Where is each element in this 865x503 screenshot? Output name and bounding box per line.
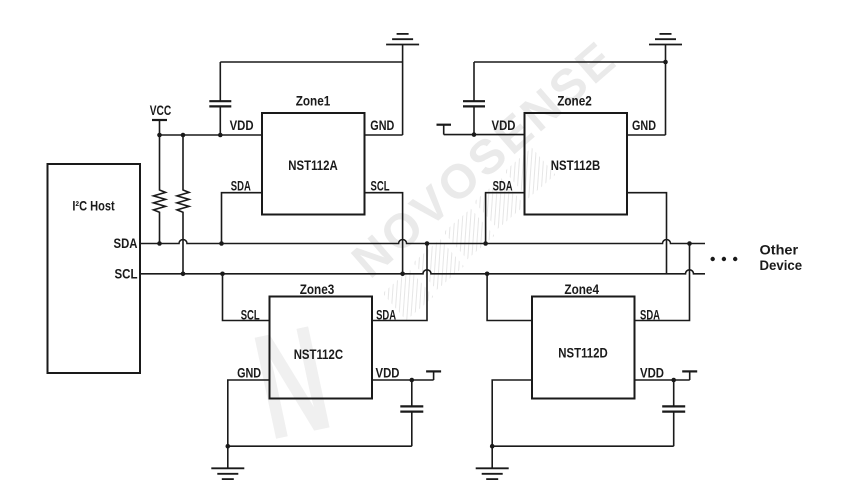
- svg-text:Zone2: Zone2: [557, 94, 592, 109]
- resistor R2: [177, 135, 189, 274]
- svg-text:SCL: SCL: [371, 178, 390, 193]
- wire SCL bus: [140, 270, 705, 274]
- wire zone2 SCL: [627, 193, 667, 274]
- svg-text:VCC: VCC: [150, 103, 172, 118]
- ground G3: [211, 446, 244, 479]
- wire zone4 GND: [492, 380, 532, 446]
- power tap T4: [682, 371, 697, 380]
- wire VCC stem: [159, 120, 161, 135]
- wire zone4 SDA: [635, 244, 690, 321]
- svg-text:GND: GND: [370, 118, 394, 133]
- svg-text:NST112A: NST112A: [288, 158, 337, 173]
- svg-text:SDA: SDA: [376, 307, 396, 322]
- watermark chinese char 5: [505, 148, 556, 199]
- junction dot zone4-SCL/SCL bus: [485, 272, 490, 277]
- svg-text:VDD: VDD: [640, 366, 664, 381]
- junction dot zone3 GND/ground: [226, 444, 231, 449]
- wire zone3 SCL: [223, 274, 270, 321]
- wire GND vertical zone2: [665, 45, 667, 136]
- junction dot R2/SCL bus: [181, 272, 186, 277]
- junction dot zone1-SDA/SDA bus: [219, 241, 224, 246]
- junction dot zone4 GND/ground: [490, 444, 495, 449]
- svg-text:SDA: SDA: [114, 236, 138, 251]
- junction dot C2/VDD zone2: [472, 132, 477, 137]
- capacitor C2: [463, 62, 485, 135]
- ground G1: [386, 34, 419, 45]
- svg-text:NST112C: NST112C: [294, 347, 343, 362]
- wire zone2 SDA: [486, 193, 525, 244]
- capacitor C3: [400, 380, 423, 446]
- watermark chinese char 2: [413, 239, 464, 290]
- svg-text:SCL: SCL: [115, 267, 138, 282]
- junction dot R2/VDD rail: [181, 133, 186, 138]
- wire zone1 SCL: [365, 193, 403, 274]
- wire zone3 SDA: [372, 244, 427, 321]
- wire zone4 VDD: [635, 379, 690, 381]
- wire VDD rail zone1: [160, 134, 263, 136]
- capacitor C1: [209, 62, 231, 135]
- junction dot zone1-SCL/SCL bus: [400, 272, 405, 277]
- wire GND pin zone2: [627, 134, 666, 136]
- svg-text:I²C Host: I²C Host: [72, 199, 115, 214]
- junction dot zone2-SDA/SDA bus: [483, 241, 488, 246]
- svg-text:VDD: VDD: [376, 366, 400, 381]
- svg-text:VDD: VDD: [230, 118, 254, 133]
- junction dot C4/VDD zone4: [671, 378, 676, 383]
- zone4 box U4: [532, 297, 635, 399]
- svg-text:SDA: SDA: [493, 178, 513, 193]
- ellipsis dot 3: [733, 257, 737, 261]
- wire GND pin zone1: [365, 134, 403, 136]
- junction dot zone3-SDA/SDA bus: [425, 241, 430, 246]
- junction dot rail2/GND vertical: [663, 60, 668, 65]
- svg-text:GND: GND: [237, 366, 261, 381]
- wire bottom rail zone4: [492, 445, 674, 447]
- capacitor C4: [662, 380, 685, 446]
- svg-text:Device: Device: [760, 258, 803, 273]
- svg-text:Zone4: Zone4: [564, 282, 599, 297]
- svg-text:SCL: SCL: [241, 307, 260, 322]
- resistor R1: [154, 135, 166, 244]
- junction dot VCC/R1: [157, 133, 162, 138]
- power tap T2: [437, 125, 452, 135]
- watermark chinese char 1: [383, 270, 434, 321]
- wire VDD zone2: [444, 134, 525, 136]
- svg-text:GND: GND: [632, 118, 656, 133]
- wire zone4 SCL: [487, 274, 532, 321]
- svg-text:SDA: SDA: [640, 307, 660, 322]
- watermark chinese char 4: [474, 178, 525, 229]
- svg-text:NST112B: NST112B: [551, 158, 600, 173]
- junction dot C3/VDD zone3: [410, 378, 415, 383]
- wire zone1 SDA: [222, 193, 263, 244]
- ground G2: [649, 34, 682, 45]
- wire zone3 GND: [228, 380, 270, 446]
- power tap T3: [426, 371, 441, 380]
- ground G4: [476, 446, 509, 479]
- svg-text:NST112D: NST112D: [558, 346, 607, 361]
- zone2 box U2: [525, 113, 628, 215]
- zone1 box U1: [262, 113, 365, 215]
- junction dot C1/VDD rail: [218, 133, 223, 138]
- watermark chinese char 3: [444, 209, 495, 260]
- junction dot R1/SDA bus: [157, 241, 162, 246]
- I2C host box: [48, 164, 141, 373]
- wire bottom rail zone3: [228, 445, 412, 447]
- wire zone3 VDD: [372, 379, 434, 381]
- svg-text:Zone3: Zone3: [300, 282, 335, 297]
- ellipsis dot 2: [722, 257, 726, 261]
- wire top rail zone2: [474, 61, 666, 63]
- svg-text:Other: Other: [760, 243, 799, 258]
- ellipsis dot 1: [711, 257, 715, 261]
- VCC symbol bar: [152, 119, 167, 121]
- svg-text:VDD: VDD: [492, 118, 516, 133]
- junction dot zone4-SDA/SDA bus: [687, 241, 692, 246]
- junction dot zone3-SCL/SCL bus: [220, 272, 225, 277]
- wire GND vertical zone1: [402, 45, 404, 136]
- wire SDA bus: [140, 240, 705, 244]
- wire top rail zone1: [220, 61, 402, 63]
- zone3 box U3: [270, 297, 373, 399]
- svg-text:SDA: SDA: [231, 178, 251, 193]
- svg-text:Zone1: Zone1: [296, 94, 331, 109]
